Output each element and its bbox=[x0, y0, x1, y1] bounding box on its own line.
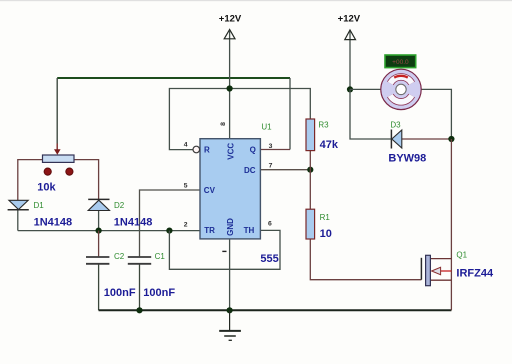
svg-text:1N4148: 1N4148 bbox=[34, 217, 73, 229]
svg-text:D3: D3 bbox=[390, 120, 401, 129]
wire: C2 top from TR rail bbox=[98, 231, 100, 257]
potentiometer wiper arrow bbox=[54, 149, 61, 155]
svg-text:U1: U1 bbox=[261, 122, 272, 131]
motor M1 body bbox=[381, 69, 421, 109]
junction D3 / drain rail bbox=[448, 136, 454, 142]
wire: GND pin 1 down to rail bbox=[229, 239, 231, 310]
wire: D3 anode to right rail bbox=[402, 138, 452, 140]
ground symbol bbox=[219, 310, 241, 340]
junction motor/D3/+12V bbox=[347, 86, 353, 92]
transistor Q1 MOSFET bbox=[421, 255, 451, 285]
junction C1 ground bbox=[136, 307, 142, 313]
svg-text:+12V: +12V bbox=[219, 14, 242, 25]
svg-text:+12V: +12V bbox=[338, 14, 361, 25]
wire: D2 anode to TR rail bbox=[98, 211, 100, 231]
svg-text:3: 3 bbox=[269, 143, 273, 150]
wire: +12V rail no.1 down to VCC pin 8 bbox=[229, 31, 231, 139]
power +12V symbol no.1 bbox=[224, 30, 235, 39]
wire: +12V rail no.2 down to motor node bbox=[349, 32, 351, 90]
resistor R1 bbox=[306, 209, 315, 239]
svg-text:1N4148: 1N4148 bbox=[114, 217, 153, 229]
wire: pot left terminal down through D1 bbox=[18, 160, 43, 200]
svg-text:C2: C2 bbox=[114, 252, 125, 261]
svg-text:10k: 10k bbox=[37, 182, 56, 194]
diode D3 bbox=[391, 130, 401, 149]
wire: Q pin 3 stub bbox=[260, 149, 290, 151]
svg-text:4: 4 bbox=[184, 142, 188, 149]
svg-text:R1: R1 bbox=[320, 213, 331, 222]
wire: node to motor left bbox=[350, 88, 381, 90]
svg-text:100nF: 100nF bbox=[143, 287, 175, 299]
motor speed display bbox=[385, 55, 416, 68]
svg-text:VCC: VCC bbox=[226, 143, 235, 160]
capacitor C1 bbox=[128, 257, 151, 264]
svg-text:GND: GND bbox=[226, 218, 235, 236]
power +12V symbol no.2 bbox=[345, 30, 356, 40]
diode D2 bbox=[88, 199, 109, 210]
svg-text:C1: C1 bbox=[155, 252, 166, 261]
wire: VCC / reset / R3 top net bbox=[169, 89, 310, 150]
junction node pin7 bbox=[307, 167, 313, 173]
svg-text:+00.0: +00.0 bbox=[392, 59, 409, 66]
svg-text:100nF: 100nF bbox=[104, 287, 136, 299]
svg-text:R: R bbox=[204, 146, 210, 155]
svg-text:2: 2 bbox=[184, 221, 188, 228]
svg-text:IRFZ44: IRFZ44 bbox=[456, 268, 494, 280]
svg-text:10: 10 bbox=[320, 228, 332, 240]
svg-text:D1: D1 bbox=[34, 201, 45, 210]
svg-text:7: 7 bbox=[269, 163, 273, 170]
wire: node down to D3 cathode bbox=[350, 89, 391, 139]
reset bubble pin 4 bbox=[193, 146, 200, 153]
svg-text:D2: D2 bbox=[114, 201, 125, 210]
wire: C1 bottom to ground rail bbox=[139, 264, 141, 310]
wire: motor right to right rail bbox=[421, 89, 451, 139]
svg-text:R3: R3 bbox=[318, 120, 329, 129]
junction D2/C2 on TR rail bbox=[96, 228, 102, 234]
wire: Q1 drain stub bbox=[430, 258, 451, 260]
svg-text:8: 8 bbox=[220, 122, 227, 126]
junction TR/TH link bbox=[166, 228, 172, 234]
svg-text:6: 6 bbox=[268, 220, 272, 227]
wire: Q1 source stub bbox=[430, 279, 451, 281]
svg-text:DC: DC bbox=[244, 166, 256, 175]
wire: bottom ground rail bbox=[99, 309, 452, 311]
svg-text:47k: 47k bbox=[320, 139, 339, 151]
wire: Q output to pot wiper (top green wire) bbox=[57, 78, 290, 150]
polarity dash bbox=[222, 250, 226, 252]
svg-text:Q1: Q1 bbox=[456, 250, 467, 259]
svg-text:Q: Q bbox=[250, 146, 256, 155]
resistor R3 bbox=[306, 119, 315, 151]
wire: right rail down to Q1 and source to ground rail bbox=[450, 139, 452, 310]
potentiometer R2 10k body bbox=[43, 155, 75, 162]
potentiometer terminal dot right bbox=[66, 168, 73, 175]
svg-text:555: 555 bbox=[260, 253, 278, 265]
diode D1 bbox=[8, 200, 29, 210]
junction GND pin ground bbox=[227, 307, 233, 313]
wire: C2 bottom to ground rail bbox=[98, 264, 100, 310]
wire: TR trigger rail bbox=[18, 230, 200, 232]
potentiometer terminal dot left bbox=[44, 168, 51, 175]
wire: D1 cathode to TR rail bbox=[17, 210, 19, 231]
wire: pot right terminal down to D2 bbox=[74, 160, 99, 200]
svg-text:CV: CV bbox=[204, 186, 216, 195]
wire: TR to TH link under IC bbox=[169, 230, 280, 269]
svg-text:TR: TR bbox=[204, 226, 215, 235]
capacitor C2 bbox=[86, 257, 109, 264]
wire: R3 bottom to R1 top bbox=[309, 151, 311, 210]
op-amp U1 555 timer body bbox=[200, 139, 260, 239]
svg-text:BYW98: BYW98 bbox=[388, 152, 426, 164]
junction VCC net bbox=[227, 85, 233, 91]
svg-text:5: 5 bbox=[184, 183, 188, 190]
svg-text:TH: TH bbox=[244, 226, 255, 235]
wire: CV pin 5 to C1 bbox=[140, 190, 201, 256]
wire: R1 bottom to Q1 gate bbox=[310, 239, 421, 280]
wire: DC pin 7 to R3/R1 node bbox=[260, 169, 310, 171]
